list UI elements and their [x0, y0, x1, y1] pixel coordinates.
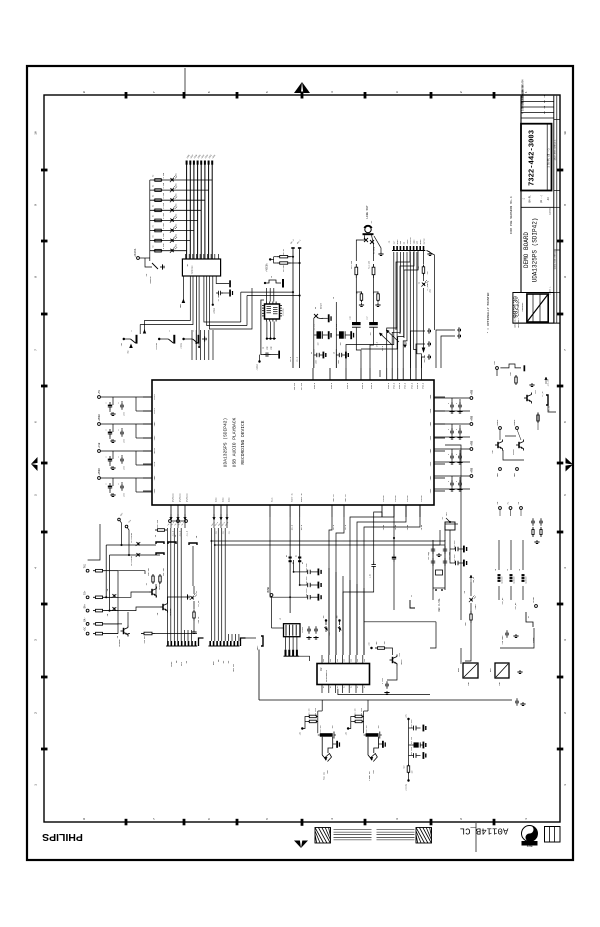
svg-text:RECORDING DEVICE: RECORDING DEVICE — [240, 420, 246, 464]
svg-text:R33 4K7: R33 4K7 — [144, 636, 146, 644]
svg-text:D+: D+ — [337, 686, 339, 688]
svg-text:D+: D+ — [364, 686, 366, 688]
svg-text:6: 6 — [564, 421, 567, 423]
svg-text:7: 7 — [153, 91, 156, 93]
svg-text:LTL_3K: LTL_3K — [198, 600, 200, 607]
svg-text:16V: 16V — [378, 726, 380, 729]
svg-text:A3L.B: A3L.B — [290, 525, 293, 530]
svg-text:XTAL2B: XTAL2B — [420, 495, 423, 502]
svg-text:GPWRBCKI: GPWRBCKI — [179, 493, 181, 502]
svg-text:R9 22K: R9 22K — [283, 264, 285, 271]
svg-text:R27: R27 — [404, 765, 406, 768]
svg-text:R 220: R 220 — [163, 193, 165, 198]
svg-text:BC848B: BC848B — [158, 582, 161, 590]
svg-text:C5 10u: C5 10u — [336, 324, 338, 330]
svg-text:2: 2 — [460, 818, 463, 820]
svg-text:VDD2: VDD2 — [429, 449, 432, 454]
svg-text:R2: R2 — [153, 215, 155, 217]
svg-text:GPIO.B: GPIO.B — [314, 383, 316, 389]
svg-text:1: 1 — [35, 784, 38, 786]
svg-text:VCC: VCC — [344, 659, 346, 662]
svg-text:XTAL2B: XTAL2B — [406, 495, 409, 502]
svg-text:C9: C9 — [262, 347, 265, 349]
svg-text:B2: B2 — [286, 555, 288, 557]
svg-text:J2L.B: J2L.B — [290, 357, 292, 362]
svg-text:LED: LED — [176, 193, 178, 196]
svg-text:7: 7 — [35, 349, 38, 351]
svg-text:R21 10K: R21 10K — [354, 707, 356, 715]
svg-text:10: 10 — [564, 131, 567, 135]
svg-text:R 220: R 220 — [163, 173, 165, 178]
svg-text:V14: V14 — [399, 653, 401, 656]
svg-text:D+: D+ — [344, 686, 346, 688]
svg-text:4: 4 — [564, 567, 567, 569]
svg-text:7: 7 — [153, 818, 156, 820]
svg-text:5: 5 — [266, 818, 269, 820]
svg-text:V5.RB: V5.RB — [407, 525, 409, 530]
svg-text:CONCEPT: CONCEPT — [521, 302, 524, 312]
svg-text:V3 1N4148: V3 1N4148 — [131, 533, 133, 543]
svg-text:BC847: BC847 — [513, 449, 515, 454]
svg-text:LED: LED — [176, 224, 178, 227]
svg-text:MADE: MADE — [526, 844, 532, 847]
svg-text:LINE IN: LINE IN — [368, 771, 371, 781]
svg-text:+VDDA: +VDDA — [213, 307, 216, 314]
svg-text:R31 10K: R31 10K — [163, 567, 165, 575]
svg-text:DATAO: DATAO — [422, 238, 425, 245]
svg-text:S: S — [193, 330, 195, 331]
svg-text:100n: 100n — [124, 466, 126, 470]
svg-text:4822-852-10814.1: 4822-852-10814.1 — [554, 139, 557, 161]
svg-text:J1L: J1L — [215, 531, 217, 534]
svg-text:6: 6 — [208, 91, 211, 93]
svg-text:2: 2 — [35, 712, 38, 714]
svg-text:8: 8 — [83, 91, 86, 93]
svg-text:C28 100n: C28 100n — [306, 576, 308, 584]
svg-text:R2: R2 — [153, 175, 155, 177]
svg-text:GPIO.B: GPIO.B — [404, 383, 406, 389]
svg-text:R 220: R 220 — [163, 213, 165, 218]
svg-text:R8 1M: R8 1M — [283, 249, 285, 254]
svg-text:R2: R2 — [153, 185, 155, 187]
svg-text:GPIO.B: GPIO.B — [347, 383, 349, 389]
svg-text:4: 4 — [331, 91, 334, 93]
svg-text:+LTL_IN: +LTL_IN — [548, 379, 550, 386]
svg-text:J1L.B: J1L.B — [186, 530, 188, 536]
svg-text:+5V: +5V — [98, 390, 101, 395]
svg-text:UDA1325PS (SDIP42): UDA1325PS (SDIP42) — [223, 418, 229, 468]
svg-text:A0114B_CL: A0114B_CL — [460, 826, 509, 836]
svg-text:R26 100K: R26 100K — [411, 746, 413, 755]
svg-text:LED: LED — [176, 214, 178, 217]
svg-text:RIGHT IN: RIGHT IN — [291, 493, 293, 502]
svg-text:C30 100n: C30 100n — [502, 636, 504, 645]
svg-text:* = OPTIONALLY MOUNTED: * = OPTIONALLY MOUNTED — [486, 292, 490, 333]
svg-text:+5V: +5V — [323, 615, 325, 618]
svg-text:LL_JP: LL_JP — [542, 391, 544, 396]
svg-text:2: 2 — [460, 91, 463, 93]
svg-text:+VCC5A: +VCC5A — [134, 248, 137, 257]
svg-text:6: 6 — [208, 818, 211, 820]
svg-text:GPWRBCKI: GPWRBCKI — [186, 493, 188, 502]
svg-text:TEST1: TEST1 — [153, 447, 156, 454]
svg-text:SWITCH: SWITCH — [149, 276, 152, 284]
svg-text:R 220: R 220 — [163, 233, 165, 238]
svg-text:4: 4 — [331, 818, 334, 820]
svg-text:SHEET 1: SHEET 1 — [549, 286, 552, 295]
svg-text:GND: GND — [128, 350, 130, 353]
svg-text:C: C — [448, 481, 450, 482]
svg-text:V5.RB: V5.RB — [421, 525, 423, 530]
svg-text:DA+: DA+ — [84, 603, 87, 608]
svg-text:100n: 100n — [338, 360, 340, 364]
svg-text:R50: R50 — [376, 641, 378, 644]
svg-text:7: 7 — [564, 349, 567, 351]
svg-text:8: 8 — [35, 276, 38, 278]
svg-text:VOL_BT: VOL_BT — [514, 602, 517, 610]
svg-text:B4-PL: B4-PL — [529, 195, 532, 203]
svg-text:C4 10u: C4 10u — [314, 324, 316, 330]
svg-text:LTL_3K: LTL_3K — [549, 405, 551, 412]
svg-text:C: C — [456, 454, 458, 455]
svg-text:4 1999/01/20: 4 1999/01/20 — [522, 95, 525, 114]
svg-text:C: C — [106, 402, 108, 403]
svg-text:XTALI: XTALI — [153, 408, 156, 414]
svg-text:C6: C6 — [311, 352, 313, 354]
svg-text:10: 10 — [35, 131, 38, 135]
svg-text:GPIO.B: GPIO.B — [331, 383, 333, 389]
svg-text:V4 1N4148: V4 1N4148 — [131, 556, 133, 566]
svg-text:R2: R2 — [153, 225, 155, 227]
svg-text:VUSB: VUSB — [532, 597, 535, 603]
svg-text:7322-442-3003: 7322-442-3003 — [529, 130, 537, 186]
svg-text:A3L.B: A3L.B — [300, 525, 303, 530]
svg-text:D+: D+ — [330, 686, 332, 688]
svg-text:VCC: VCC — [337, 659, 339, 662]
svg-text:P10: P10 — [406, 343, 408, 346]
svg-text:R52: R52 — [465, 622, 467, 625]
svg-text:R30 10K: R30 10K — [148, 567, 150, 575]
svg-text:J1L: J1L — [228, 531, 230, 534]
svg-text:LED2: LED2 — [430, 289, 432, 293]
svg-text:R 220: R 220 — [163, 183, 165, 188]
svg-text:24LC64: 24LC64 — [282, 308, 285, 316]
svg-text:4: 4 — [35, 567, 38, 569]
svg-text:VUSB: VUSB — [267, 587, 270, 593]
svg-text:GPIO.B: GPIO.B — [412, 383, 414, 389]
svg-text:XTALO: XTALO — [153, 393, 156, 400]
svg-text:R 220: R 220 — [163, 223, 165, 228]
svg-text:LED: LED — [176, 173, 178, 176]
svg-text:B3: B3 — [302, 562, 304, 564]
svg-text:RESET: RESET — [320, 302, 323, 309]
svg-text:VCC: VCC — [330, 659, 332, 662]
svg-text:+VDD: +VDD — [471, 467, 474, 473]
svg-text:C 100n: C 100n — [382, 678, 384, 684]
svg-text:C: C — [448, 403, 450, 404]
svg-text:LINE OUT: LINE OUT — [366, 205, 369, 219]
svg-text:R14 100: R14 100 — [369, 261, 371, 269]
svg-text:R34 1K: R34 1K — [198, 616, 200, 623]
svg-text:BLM609T: BLM609T — [502, 576, 504, 583]
svg-text:GP0.B: GP0.B — [382, 346, 384, 351]
svg-text:VOL_BT: VOL_BT — [501, 597, 504, 605]
svg-text:R2: R2 — [153, 205, 155, 207]
svg-text:+VDDA: +VDDA — [513, 419, 516, 426]
svg-text:USB AUDIO PLAYBACK: USB AUDIO PLAYBACK — [232, 417, 238, 467]
svg-text:16V: 16V — [318, 343, 320, 346]
svg-text:C: C — [118, 456, 120, 457]
svg-text:PHILIPS: PHILIPS — [42, 831, 83, 843]
svg-text:5: 5 — [35, 494, 38, 496]
svg-text:+VCC5A: +VCC5A — [405, 783, 408, 791]
svg-text:PLLF: PLLF — [153, 462, 156, 467]
svg-text:C: C — [456, 429, 458, 430]
svg-text:5: 5 — [266, 91, 269, 93]
svg-text:J1: J1 — [411, 595, 413, 597]
svg-text:TX1: TX1 — [84, 563, 87, 568]
svg-text:LED: LED — [176, 244, 178, 247]
svg-text:VSS2: VSS2 — [429, 462, 432, 467]
svg-text:KINT: KINT — [532, 637, 535, 643]
svg-text:REC X-TAL: REC X-TAL — [438, 598, 441, 612]
svg-text:+5V: +5V — [337, 615, 339, 618]
svg-text:C14 10u: C14 10u — [411, 737, 413, 744]
svg-text:GPIO.B: GPIO.B — [362, 383, 364, 389]
svg-text:8: 8 — [83, 818, 86, 820]
svg-text:SUPERS: SUPERS — [549, 207, 552, 215]
svg-text:+VDDA: +VDDA — [98, 414, 101, 422]
svg-text:R2: R2 — [153, 195, 155, 197]
svg-text:PDIUSBP11: PDIUSBP11 — [325, 669, 328, 682]
svg-text:1: 1 — [564, 784, 567, 786]
svg-text:LED: LED — [176, 204, 178, 207]
svg-text:VN: VN — [333, 297, 335, 299]
svg-text:R21 10K: R21 10K — [309, 707, 311, 715]
svg-text:BCKO: BCKO — [215, 498, 217, 502]
svg-text:1: 1 — [525, 818, 528, 820]
svg-text:BCKO: BCKO — [228, 498, 230, 502]
svg-text:3: 3 — [564, 639, 567, 641]
svg-text:S3+: S3+ — [84, 590, 87, 595]
svg-text:+VDD: +VDD — [471, 389, 474, 395]
svg-text:R 220: R 220 — [163, 244, 165, 249]
svg-text:16V: 16V — [332, 726, 334, 729]
svg-text:R20: R20 — [510, 372, 512, 375]
svg-text:GPIO.B: GPIO.B — [399, 383, 401, 389]
svg-text:DA-: DA- — [84, 617, 87, 622]
svg-text:R13 100: R13 100 — [351, 261, 353, 269]
svg-text:100n: 100n — [124, 439, 126, 443]
svg-text:747022: 747022 — [302, 627, 304, 633]
svg-text:C7 100n: C7 100n — [218, 294, 220, 302]
svg-text:+VCC5A: +VCC5A — [266, 263, 269, 272]
svg-text:R2: R2 — [153, 246, 155, 248]
svg-text:LEFT IN: LEFT IN — [345, 494, 347, 502]
svg-text:1K0: 1K0 — [412, 770, 414, 773]
svg-text:XTAL2B: XTAL2B — [382, 495, 385, 502]
svg-text:D+: D+ — [357, 686, 359, 688]
svg-text:R22 100K: R22 100K — [315, 707, 317, 716]
svg-text:R 220: R 220 — [163, 203, 165, 208]
svg-text:1.5n: 1.5n — [370, 574, 372, 578]
svg-text:C13 100n: C13 100n — [411, 719, 413, 727]
svg-text:J1L: J1L — [222, 531, 224, 534]
svg-text:GPIO.B: GPIO.B — [393, 383, 395, 389]
svg-text:D+: D+ — [323, 686, 325, 688]
svg-text:C: C — [456, 481, 458, 482]
svg-text:1K5: 1K5 — [384, 641, 386, 644]
svg-text:SDA.SPI: SDA.SPI — [293, 383, 296, 390]
svg-text:6: 6 — [35, 421, 38, 423]
svg-text:LED3: LED3 — [474, 604, 477, 610]
svg-text:GPIO.B: GPIO.B — [371, 383, 373, 389]
svg-text:BC858B: BC858B — [118, 639, 121, 647]
svg-text:1: 1 — [525, 91, 528, 93]
svg-text:2: 2 — [564, 712, 567, 714]
svg-text:VCC: VCC — [350, 659, 352, 662]
svg-text:+VDDA: +VDDA — [256, 363, 259, 370]
svg-text:16V: 16V — [340, 343, 342, 346]
svg-text:C23 100n: C23 100n — [454, 540, 456, 548]
svg-text:DEMO BOARD: DEMO BOARD — [523, 232, 530, 268]
svg-text:BC847: BC847 — [401, 659, 403, 664]
svg-text:SCL.SPI: SCL.SPI — [301, 383, 303, 390]
svg-text:+VDDX: +VDDX — [98, 468, 101, 476]
svg-text:74HC244: 74HC244 — [191, 265, 194, 274]
svg-text:+VDDA: +VDDA — [180, 342, 183, 349]
svg-text:XTAL2B: XTAL2B — [394, 495, 397, 502]
svg-text:C11 10u: C11 10u — [320, 725, 322, 732]
svg-text:R22 100K: R22 100K — [361, 707, 363, 716]
svg-text:100n: 100n — [124, 412, 126, 416]
svg-text:+1V8: +1V8 — [98, 442, 101, 448]
svg-text:LED: LED — [176, 183, 178, 186]
svg-text:GPIO.B: GPIO.B — [417, 383, 419, 389]
svg-text:+5V: +5V — [493, 360, 496, 365]
svg-text:9: 9 — [564, 204, 567, 206]
svg-text:VCC: VCC — [357, 659, 359, 662]
svg-text:BCKO: BCKO — [222, 498, 224, 502]
svg-text:LEFT IN: LEFT IN — [333, 494, 335, 502]
svg-text:+5C: +5C — [84, 626, 87, 631]
svg-text:DES.DEPT. Marcom Concepts: DES.DEPT. Marcom Concepts — [517, 299, 520, 327]
svg-text:C: C — [448, 454, 450, 455]
svg-text:C: C — [106, 483, 108, 484]
svg-text:VCC: VCC — [323, 659, 325, 662]
svg-text:+VDDA: +VDDA — [496, 419, 499, 426]
svg-text:C21 68p: C21 68p — [428, 552, 430, 560]
svg-text:C16: C16 — [350, 316, 352, 319]
svg-text:R2: R2 — [153, 235, 155, 237]
svg-text:C28 100n: C28 100n — [306, 589, 308, 597]
svg-text:+VDD: +VDD — [471, 415, 474, 421]
svg-text:USB_PWR: USB_PWR — [424, 354, 426, 362]
svg-text:S: S — [131, 330, 133, 331]
svg-text:BLM609T: BLM609T — [514, 576, 516, 583]
svg-text:22p: 22p — [266, 346, 269, 349]
svg-text:RIGHT IN: RIGHT IN — [301, 493, 303, 502]
svg-text:C: C — [118, 429, 120, 430]
svg-text:(B --): (B --) — [540, 194, 543, 203]
svg-text:10u: 10u — [370, 332, 372, 335]
svg-text:100n: 100n — [124, 493, 126, 497]
svg-text:5: 5 — [564, 494, 567, 496]
svg-text:3: 3 — [396, 818, 399, 820]
svg-text:1 St-PL (B --): 1 St-PL (B --) — [548, 148, 551, 167]
svg-text:BCKI: BCKI — [170, 661, 173, 667]
svg-text:9499-040-05011: 9499-040-05011 — [554, 250, 557, 269]
svg-text:GPIO.B: GPIO.B — [388, 383, 390, 389]
svg-text:C: C — [448, 429, 450, 430]
svg-text:C11 10u: C11 10u — [366, 725, 368, 732]
svg-text:C23 100n: C23 100n — [454, 554, 456, 562]
svg-text:3: 3 — [35, 639, 38, 641]
svg-text:LED: LED — [176, 234, 178, 237]
svg-text:VCC: VCC — [364, 659, 366, 662]
svg-text:C: C — [118, 483, 120, 484]
svg-text:C17: C17 — [367, 316, 369, 319]
svg-text:9: 9 — [35, 204, 38, 206]
svg-text:22p: 22p — [270, 346, 273, 349]
svg-text:C: C — [456, 403, 458, 404]
svg-text:GPWRBCKI: GPWRBCKI — [172, 493, 174, 502]
svg-text:V5.RB: V5.RB — [383, 525, 385, 530]
svg-text:V5.RB: V5.RB — [395, 525, 397, 530]
svg-text:UDA1325PS (SDIP42): UDA1325PS (SDIP42) — [532, 218, 539, 283]
svg-text:C: C — [118, 402, 120, 403]
svg-text:C: C — [106, 456, 108, 457]
svg-text:S2: S2 — [314, 307, 317, 309]
svg-text:BLM609T: BLM609T — [526, 576, 528, 583]
svg-text:C: C — [106, 429, 108, 430]
svg-text:3: 3 — [396, 91, 399, 93]
svg-text:+VCC5A: +VCC5A — [155, 342, 158, 350]
svg-text:C8: C8 — [334, 352, 336, 354]
svg-text:GPIO.B: GPIO.B — [423, 383, 425, 389]
svg-text:+VDD: +VDD — [471, 440, 474, 446]
svg-text:D+: D+ — [350, 686, 352, 688]
svg-text:R32 1K0: R32 1K0 — [157, 520, 159, 528]
svg-text:J6X7: J6X7 — [256, 645, 259, 651]
svg-text:8: 8 — [564, 276, 567, 278]
svg-text:C28 100n: C28 100n — [306, 563, 308, 571]
svg-text:LED_IN: LED_IN — [473, 577, 475, 583]
svg-text:FOR PCB VERSION V1.4: FOR PCB VERSION V1.4 — [509, 196, 513, 233]
svg-text:S: S — [169, 330, 171, 331]
svg-text:B2: B2 — [296, 555, 298, 557]
svg-text:MUX IN: MUX IN — [232, 664, 235, 672]
svg-text:100n: 100n — [315, 360, 317, 364]
svg-text:V2: V2 — [419, 282, 421, 284]
svg-text:MIC IN: MIC IN — [322, 771, 325, 780]
